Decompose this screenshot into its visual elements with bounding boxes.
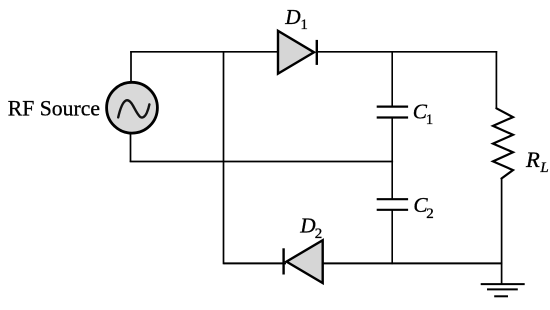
- ground bar 1: [481, 283, 525, 285]
- diode D2: [287, 240, 323, 283]
- bottom wire right segment: [323, 262, 503, 264]
- svg-text:R: R: [525, 147, 540, 172]
- middle wire horizontal: [130, 161, 393, 163]
- diode D1 cathode bar: [316, 40, 318, 65]
- ground bar 2: [487, 288, 518, 290]
- sine wave symbol: [118, 100, 149, 117]
- wire right top vertical: [495, 51, 497, 109]
- svg-text:2: 2: [426, 206, 434, 222]
- wire top horizontal right segment: [317, 51, 497, 53]
- svg-text:1: 1: [426, 112, 434, 128]
- svg-text:D: D: [284, 5, 301, 29]
- capacitor C2 top plate: [377, 198, 408, 200]
- wire top horizontal left segment: [130, 51, 278, 53]
- resistor RL zigzag: [493, 108, 513, 178]
- RF source circle: [107, 82, 158, 133]
- wire between C1 and C2: [391, 118, 393, 200]
- ground bar 3: [494, 295, 508, 297]
- capacitor C1 bottom plate: [377, 116, 408, 118]
- wire below C2 vertical: [391, 210, 393, 264]
- junction vertical wire: [223, 51, 225, 264]
- capacitor C1 top plate: [377, 105, 408, 107]
- svg-text:D: D: [299, 214, 316, 238]
- svg-text:2: 2: [315, 226, 323, 242]
- svg-text:L: L: [539, 160, 548, 176]
- svg-text:1: 1: [300, 17, 308, 33]
- wire source bottom vertical: [130, 133, 132, 162]
- wire C-stack top vertical: [391, 51, 393, 107]
- wire source top vertical: [130, 51, 132, 84]
- diode D1: [278, 31, 314, 74]
- svg-text:RF Source: RF Source: [8, 96, 100, 120]
- wire right bottom vertical: [501, 179, 503, 285]
- bottom wire left segment: [224, 262, 287, 264]
- capacitor C2 bottom plate: [377, 209, 408, 211]
- diode D2 cathode bar: [282, 248, 284, 274]
